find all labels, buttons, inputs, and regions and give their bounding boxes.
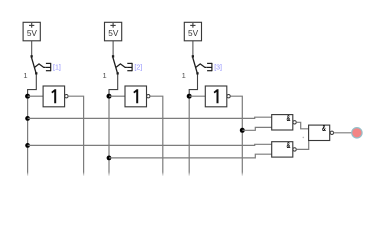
switch S3 mechanical link <box>196 64 207 68</box>
wire net L3 node N2a to nand U5 input 2 <box>109 154 272 158</box>
wire node N1 bus down <box>27 99 29 176</box>
svg-text:[2]: [2] <box>134 65 142 72</box>
node N3 junction <box>187 94 192 99</box>
node N3a junction on U3 output net <box>240 128 245 133</box>
wire nand U6 output to LED <box>334 132 352 134</box>
switch S2 bottom terminal <box>117 72 119 74</box>
wire battery V2 to switch S2 <box>112 41 114 56</box>
wire node N3a to nand U4 input 2 <box>242 127 271 130</box>
svg-text:[1]: [1] <box>53 65 61 72</box>
nand-gate U5 body <box>272 142 293 157</box>
not-gate U1 label 1 <box>51 89 56 103</box>
switch S1 mechanical link <box>34 64 45 68</box>
wire switch S3 to node N3 <box>189 75 197 95</box>
wire node N2 to gate U2 input <box>109 95 125 97</box>
wire nand U5 output to nand U6 input 2 <box>296 140 308 149</box>
switch S1 top terminal <box>31 55 33 57</box>
not-gate U3 output bubble <box>227 95 230 98</box>
nand-gate U6 label &amp; <box>322 125 326 133</box>
not-gate U2 body <box>125 86 147 107</box>
nand-gate U4 body <box>272 115 293 130</box>
wire node N3 to gate U3 input <box>189 95 205 97</box>
switch S3 lever <box>193 57 198 73</box>
battery V2 plus sign <box>110 24 115 26</box>
switch S1 key actuator symbol <box>46 62 51 64</box>
LED indicator D1 output lamp <box>352 128 362 138</box>
svg-text:1: 1 <box>23 71 27 80</box>
node N2 junction <box>107 94 112 99</box>
battery V3 +5V source <box>184 22 201 41</box>
switch S2 top terminal <box>112 55 114 57</box>
stray grid dot <box>303 137 305 139</box>
not-gate U3 body <box>205 86 227 107</box>
battery V1 +5V source <box>23 22 40 41</box>
svg-text:&: & <box>322 125 326 133</box>
nand-gate U4 label &amp; <box>286 115 290 123</box>
wire net L1 node N1a to nand U4 input 1 <box>28 117 272 118</box>
wire node N3 bus down <box>188 99 190 176</box>
battery V1 plus sign <box>29 24 34 26</box>
battery V2 +5V source <box>105 22 122 41</box>
not-gate U3 label 1 <box>214 89 219 103</box>
svg-text:1: 1 <box>182 71 186 80</box>
nand-gate U5 label &amp; <box>286 142 290 150</box>
not-gate U2 output bubble <box>147 95 150 98</box>
svg-text:&: & <box>286 142 290 150</box>
not-gate U1 body <box>43 86 65 107</box>
not-gate U1 output bubble <box>65 95 68 98</box>
switch S1 lever <box>32 57 37 73</box>
nand-gate U4 output bubble <box>293 121 296 124</box>
wire node N2 bus down <box>108 99 110 176</box>
svg-text:&: & <box>286 115 290 123</box>
node N1 junction <box>25 94 30 99</box>
switch S1 bottom terminal <box>35 72 37 74</box>
switch S3 key actuator symbol <box>207 62 212 64</box>
switch S3 top terminal <box>192 55 194 57</box>
wire gate U1 output down <box>68 96 84 176</box>
wire switch S2 to node N2 <box>109 75 118 95</box>
wire gate U3 output down <box>230 96 242 176</box>
switch S2 mechanical link <box>116 64 127 68</box>
wire battery V3 to switch S3 <box>192 41 194 56</box>
not-gate U2 label 1 <box>133 89 138 103</box>
nand-gate U5 output bubble <box>293 148 296 151</box>
node N1b junction <box>25 143 30 148</box>
switch S2 key actuator symbol <box>127 62 132 64</box>
svg-text:5V: 5V <box>108 28 119 38</box>
svg-text:5V: 5V <box>27 28 38 38</box>
wire battery V1 to switch S1 <box>31 41 33 56</box>
switch S2 lever <box>113 57 118 73</box>
wire switch S1 to node N1 <box>28 75 37 95</box>
nand-gate U6 output bubble <box>330 131 333 134</box>
svg-text:1: 1 <box>103 71 107 80</box>
wire nand U4 output to nand U6 input 1 <box>296 122 308 129</box>
wire gate U2 output down <box>150 96 163 176</box>
svg-text:[3]: [3] <box>214 65 222 72</box>
bottom fade (screenshot crop) <box>0 168 382 182</box>
wire net L2 node N1b to nand U5 input 1 <box>28 144 272 145</box>
svg-text:5V: 5V <box>188 28 199 38</box>
node N1a junction <box>25 116 30 121</box>
wire node N1 to gate U1 input <box>28 95 43 97</box>
battery V3 plus sign <box>190 24 195 26</box>
node N2a junction <box>107 156 112 161</box>
switch S3 bottom terminal <box>196 72 198 74</box>
nand-gate U6 body <box>309 125 330 140</box>
